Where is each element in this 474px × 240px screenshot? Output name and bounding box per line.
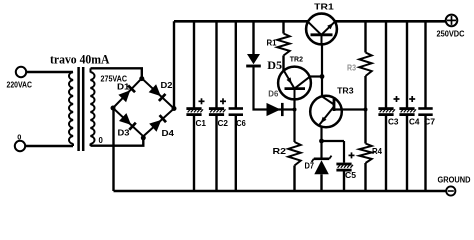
svg-text:GROUND: GROUND [438,175,471,185]
svg-text:D3: D3 [118,128,130,138]
svg-text:TR2: TR2 [290,55,303,64]
svg-text:D5: D5 [267,58,282,72]
svg-text:R3: R3 [347,62,356,72]
svg-text:0: 0 [17,133,21,142]
svg-text:D2: D2 [161,80,173,90]
svg-text:TR3: TR3 [337,87,354,96]
svg-text:220VAC: 220VAC [7,79,33,89]
svg-text:C6: C6 [236,119,246,128]
svg-text:250VDC: 250VDC [437,29,465,39]
svg-text:R1: R1 [267,37,277,47]
svg-text:C7: C7 [424,117,435,126]
svg-text:C3: C3 [388,117,399,126]
svg-text:travo 40mA: travo 40mA [50,51,110,66]
svg-text:TR1: TR1 [314,3,334,12]
svg-text:C2: C2 [218,119,229,128]
svg-text:D1: D1 [117,82,130,92]
svg-text:R2: R2 [273,146,287,156]
svg-text:R4: R4 [372,146,382,156]
svg-text:D7: D7 [305,160,315,170]
svg-text:C1: C1 [196,119,207,128]
svg-text:D4: D4 [162,128,175,138]
svg-text:0: 0 [99,136,104,145]
svg-text:C5: C5 [345,171,356,180]
svg-text:C4: C4 [409,117,420,126]
svg-text:D6: D6 [268,90,279,99]
